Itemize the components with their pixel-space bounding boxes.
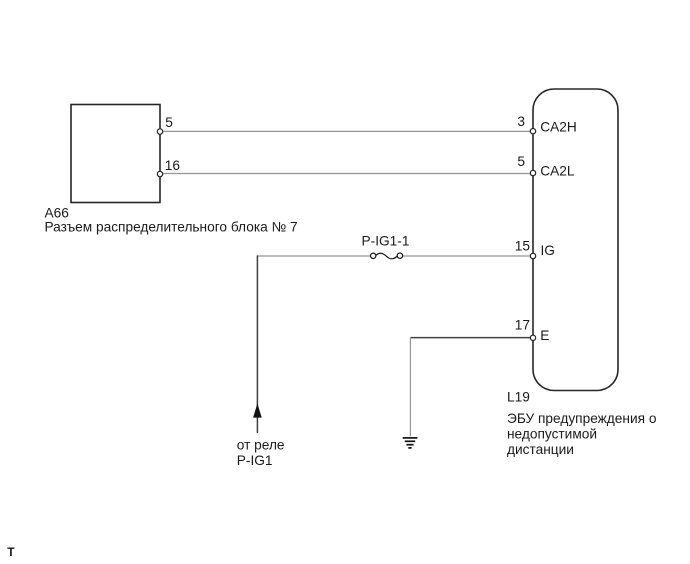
svg-text:A66: A66	[45, 205, 70, 220]
svg-text:CA2L: CA2L	[540, 163, 575, 178]
wire IG right segment	[402, 255, 533, 257]
svg-text:L19: L19	[507, 390, 530, 405]
svg-text:дистанции: дистанции	[507, 442, 574, 457]
wire from relay vertical	[256, 255, 258, 433]
svg-text:15: 15	[515, 238, 531, 253]
svg-text:P-IG1-1: P-IG1-1	[362, 234, 410, 249]
pin 17 of L19	[530, 335, 535, 340]
pin 3 of L19	[530, 129, 535, 134]
svg-text:5: 5	[165, 115, 173, 130]
svg-text:от реле: от реле	[237, 437, 285, 452]
wire to ground vertical	[409, 338, 411, 437]
fuse P-IG1-1 right terminal	[397, 253, 402, 258]
ground symbol	[403, 438, 418, 448]
fuse P-IG1-1 left terminal	[371, 253, 376, 258]
svg-text:E: E	[540, 328, 549, 343]
svg-text:P-IG1: P-IG1	[237, 453, 273, 468]
svg-text:недопустимой: недопустимой	[507, 426, 597, 441]
wire CA2L	[160, 173, 533, 175]
wire E horizontal	[410, 337, 533, 339]
svg-text:Т: Т	[7, 545, 15, 559]
svg-text:IG: IG	[541, 243, 555, 258]
fuse P-IG1-1 element	[376, 253, 397, 259]
svg-text:17: 17	[515, 317, 530, 332]
svg-text:ЭБУ предупреждения о: ЭБУ предупреждения о	[507, 411, 657, 426]
svg-text:Разъем распределительного блок: Разъем распределительного блока № 7	[45, 220, 298, 235]
pin 5 of A66	[157, 129, 162, 134]
svg-text:5: 5	[517, 154, 525, 169]
svg-text:3: 3	[517, 114, 525, 129]
arrow from relay	[254, 405, 262, 418]
pin 15 of L19	[530, 253, 535, 258]
svg-text:16: 16	[165, 158, 181, 173]
wire CA2H	[160, 130, 533, 132]
connector block A66	[71, 105, 160, 203]
wire IG left segment	[257, 255, 370, 257]
svg-text:CA2H: CA2H	[540, 119, 577, 134]
pin 16 of A66	[157, 171, 162, 176]
pin 5 of L19	[530, 170, 535, 175]
ECU L19	[533, 89, 618, 391]
